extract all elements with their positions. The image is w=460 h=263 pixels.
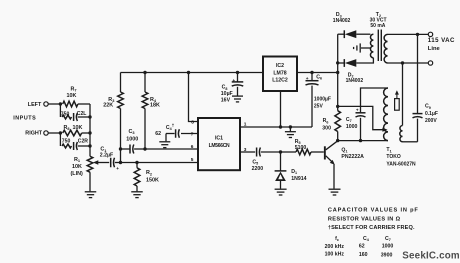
wire IC2 input from rectifier — [297, 72, 338, 74]
wire 115VAC top lead — [388, 33, 429, 35]
svg-text:22K: 22K — [103, 103, 113, 109]
svg-text:1000µF: 1000µF — [314, 96, 331, 102]
wiper arrow of R1 — [97, 162, 109, 164]
svg-text:62: 62 — [155, 131, 161, 137]
capacitor C4 62pF at pin7 — [181, 133, 198, 135]
resistor R7 10K — [63, 101, 78, 107]
transformer T2 line-side winding — [384, 34, 387, 63]
wire Q1 emitter to ground — [333, 164, 335, 188]
T1 adjustable slug — [395, 99, 400, 111]
capacitor C3 1000 — [121, 148, 130, 150]
svg-text:1N4002: 1N4002 — [333, 18, 351, 24]
svg-text:100 kHz: 100 kHz — [325, 252, 345, 258]
resistor R4 18K — [144, 73, 146, 93]
transformer T1 primary winding — [384, 88, 388, 141]
transistor Q1 PN2222A — [324, 146, 326, 159]
transformer T2 core — [377, 30, 379, 62]
wire rectifier DC bus — [337, 34, 339, 106]
svg-text:750: 750 — [62, 138, 71, 144]
svg-text:R7: R7 — [71, 86, 77, 92]
capacitor C1 2.2uF — [110, 158, 112, 168]
svg-text:300: 300 — [322, 126, 331, 132]
wire IC1 pin1 / ground line — [240, 126, 312, 128]
svg-text:1000: 1000 — [346, 124, 358, 130]
capacitor C9 0.1uF 200V — [417, 34, 419, 113]
potentiometer R1 10K (LIN) — [87, 156, 93, 172]
svg-text:1N914: 1N914 — [291, 176, 306, 182]
svg-text:+: + — [356, 108, 359, 113]
svg-text:16V: 16V — [221, 98, 231, 104]
regulator IC2 LM78L12CZ — [263, 57, 297, 92]
svg-text:RIGHT: RIGHT — [25, 131, 42, 137]
svg-text:2200: 2200 — [252, 166, 264, 172]
svg-text:LM78: LM78 — [273, 70, 286, 76]
svg-text:SeekIC.com: SeekIC.com — [402, 250, 460, 261]
capacitor C8 10uF 16V — [237, 73, 239, 82]
svg-text:18K: 18K — [150, 103, 160, 109]
resistor R8 10K — [63, 130, 82, 136]
wire R7 right to mix bus — [78, 103, 90, 105]
wire pin6 line — [145, 148, 198, 150]
svg-text:INPUTS: INPUTS — [13, 116, 36, 122]
terminal 115VAC top — [428, 32, 432, 36]
wire collector / tank bottom line — [338, 140, 388, 142]
svg-text:+: + — [116, 166, 119, 171]
svg-text:+: + — [232, 79, 235, 84]
diode D2 1N4002 — [338, 62, 345, 64]
wire pin5 line — [121, 162, 199, 164]
svg-text:6: 6 — [191, 144, 194, 150]
resistor R3 22K — [120, 73, 122, 93]
capacitor C7 1000 (tank) — [361, 88, 389, 112]
capacitor C5 2200 — [256, 148, 258, 157]
svg-text:10K: 10K — [67, 93, 77, 99]
transformer T2 primary-side winding (secondary LV) — [370, 34, 373, 58]
svg-text:5: 5 — [191, 157, 194, 163]
svg-text:LM566CN: LM566CN — [209, 143, 230, 149]
svg-text:L12C2: L12C2 — [272, 78, 288, 84]
svg-text:62: 62 — [359, 244, 365, 250]
svg-text:R1: R1 — [74, 157, 81, 163]
wire +12V top rail — [121, 72, 264, 74]
ground below C8 — [232, 95, 243, 97]
svg-text:200 kHz: 200 kHz — [325, 244, 345, 250]
svg-text:10K: 10K — [73, 125, 83, 131]
transformer T1 secondary winding — [402, 63, 404, 126]
svg-text:RESISTOR VALUES IN Ω: RESISTOR VALUES IN Ω — [328, 216, 401, 222]
svg-text:1N4002: 1N4002 — [346, 78, 364, 84]
terminal 115VAC bottom — [428, 61, 432, 65]
svg-text:C3: C3 — [129, 129, 136, 135]
svg-text:C2L: C2L — [77, 111, 87, 117]
svg-text:LEFT: LEFT — [28, 102, 42, 108]
ground below R2 — [131, 191, 143, 193]
resistor R5 5100 — [281, 151, 297, 153]
svg-text:1000: 1000 — [126, 136, 138, 142]
svg-text:160: 160 — [359, 252, 368, 258]
diode D1 1N914 — [280, 152, 282, 171]
capacitor C6 1000uF 25V — [311, 73, 313, 81]
svg-text:5100: 5100 — [295, 145, 307, 151]
resistor 750 + capacitor C2R branch (right channel) — [59, 133, 61, 146]
svg-text:YAN-60027N: YAN-60027N — [386, 162, 416, 168]
svg-text:R8: R8 — [64, 125, 71, 131]
svg-text:IC1: IC1 — [215, 136, 223, 142]
svg-text:115 VAC: 115 VAC — [428, 37, 455, 44]
svg-text:150K: 150K — [146, 177, 159, 183]
svg-text:Line: Line — [428, 46, 441, 52]
svg-text:C2R: C2R — [78, 138, 89, 144]
resistor 750 + capacitor C2L branch (left channel) — [59, 104, 61, 117]
svg-text:CAPACITOR VALUES IN pF: CAPACITOR VALUES IN pF — [328, 208, 419, 214]
svg-text:1000: 1000 — [382, 243, 394, 249]
op-amp IC1 LM566CN — [198, 118, 240, 170]
svg-text:†SELECT FOR CARRIER FREQ.: †SELECT FOR CARRIER FREQ. — [328, 225, 415, 231]
ground below Q1 — [329, 188, 341, 190]
svg-text:8: 8 — [191, 120, 194, 126]
svg-text:50 mA: 50 mA — [370, 23, 385, 29]
svg-text:200V: 200V — [425, 118, 437, 124]
svg-text:750: 750 — [61, 112, 70, 118]
svg-text:PN2222A: PN2222A — [341, 154, 364, 160]
svg-text:R2: R2 — [146, 170, 153, 176]
diode D3 1N4002 — [338, 33, 345, 35]
wire pin3 line — [240, 151, 255, 153]
svg-text:IC2: IC2 — [276, 63, 284, 69]
ground below D1 — [275, 188, 287, 190]
resistor R2 150K — [136, 163, 138, 168]
wire B+ feed to T1 tap — [338, 106, 386, 129]
svg-text:2.2µF: 2.2µF — [100, 152, 113, 158]
svg-text:(LIN): (LIN) — [71, 171, 83, 177]
resistor R6 300 — [337, 106, 339, 110]
wire 115VAC bottom lead — [388, 62, 429, 64]
pin 7 stub — [197, 133, 199, 135]
svg-text:10K: 10K — [72, 164, 82, 170]
ground below R1 — [89, 172, 91, 191]
svg-text:3900: 3900 — [381, 252, 393, 258]
svg-text:+: + — [306, 77, 309, 82]
svg-text:TOKO: TOKO — [386, 154, 400, 160]
wire IC2 ground pin — [280, 91, 282, 127]
wire pin8 to rail — [189, 73, 199, 122]
svg-text:10µF: 10µF — [221, 91, 233, 97]
svg-text:25V: 25V — [314, 103, 324, 109]
svg-text:0.1µF: 0.1µF — [425, 111, 438, 117]
ground below C4 — [159, 141, 170, 143]
svg-text:7: 7 — [191, 131, 194, 137]
T2 center tap ground (sideways) — [361, 47, 371, 49]
ground on pin1 line — [289, 127, 291, 131]
